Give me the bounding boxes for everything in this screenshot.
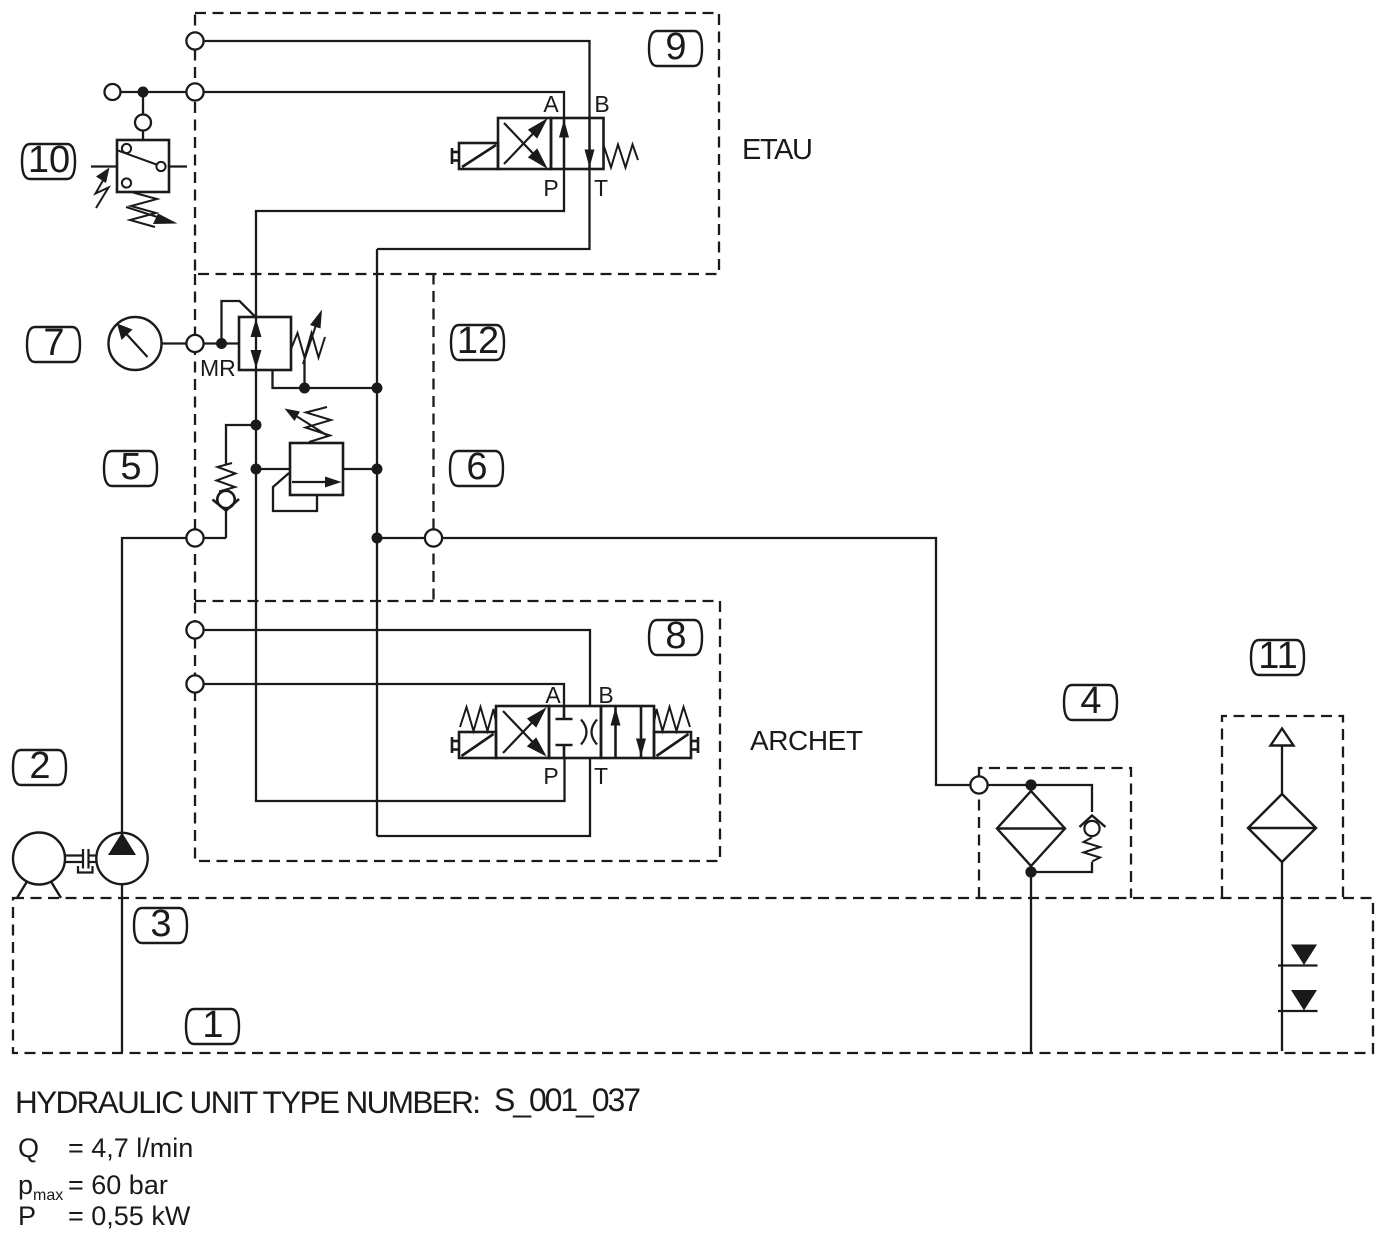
svg-text:P: P [543, 763, 558, 789]
valve 8 crossed arrow up-right [503, 721, 534, 754]
svg-text:MR: MR [200, 355, 236, 381]
junction dot at pressure switch tee [138, 87, 149, 98]
balloon tag 12 [451, 325, 504, 360]
pressure switch lightning symbol [96, 176, 109, 208]
wire return filter inlet [988, 784, 1032, 786]
balloon tag 5 [104, 451, 157, 486]
svg-text:2: 2 [29, 745, 50, 787]
svg-text:B: B [594, 91, 609, 117]
pressure switch contact circle top-left [122, 144, 131, 153]
port circle node A8 [186, 675, 203, 692]
pump 3 circle [96, 833, 147, 884]
port circle node P pump [186, 529, 203, 546]
fluid level mark lower triangle [1291, 990, 1317, 1011]
balloon tag 10 [22, 144, 75, 179]
svg-text:A: A [543, 91, 559, 117]
svg-text:B: B [598, 682, 613, 708]
svg-text:ARCHET: ARCHET [750, 725, 863, 756]
bypass check valve spring [1084, 838, 1101, 862]
pressure switch lightning arrowhead [96, 168, 110, 184]
pressure gauge needle [125, 333, 148, 358]
wire pressure switch left port [91, 165, 117, 167]
bypass check valve ball [1084, 821, 1099, 836]
svg-text:A: A [545, 682, 561, 708]
port circle node filter inlet [970, 776, 987, 793]
wire valve 8 B port line [204, 630, 591, 706]
junction dot relief inlet on P line [251, 464, 262, 475]
pump flow triangle [108, 833, 136, 856]
svg-text:Q: Q [18, 1133, 39, 1163]
wire pump riser top [122, 538, 187, 833]
svg-text:1: 1 [202, 1004, 223, 1046]
wire T to valve 8 T port [377, 758, 590, 836]
relief valve internal passage [292, 481, 327, 483]
breather 11 air triangle [1271, 729, 1294, 746]
valve 8 body left position box (crossed arrows) [496, 706, 549, 758]
wire pump riser bottom into tank [121, 884, 123, 1052]
wire drain of reducing valve [273, 370, 378, 388]
valve 9 solenoid [459, 143, 498, 169]
valve 8 left solenoid [459, 732, 496, 758]
valve 8 down arrowhead right box [636, 739, 646, 757]
coupling bars [82, 849, 84, 869]
pressure reducing valve passage line [255, 317, 257, 370]
junction dot reducing valve drain spring [299, 383, 310, 394]
manifold dashed edge connecting box 9 and box 8 [194, 274, 196, 601]
valve 9 down arrowhead on B-T passage [585, 150, 595, 168]
relief valve adjustment arrowhead [285, 409, 301, 422]
wire MR port circle to reducing valve inlet [204, 342, 240, 344]
wire check valve top branch to P line [226, 425, 256, 464]
enclosure box 8 (ARCHET valve subplate, dashed) [195, 601, 720, 861]
motor-pump shaft [65, 854, 83, 856]
dashed boundary line 12 [432, 274, 434, 602]
wire relief valve pilot hook [273, 473, 317, 511]
pressure gauge 7 [109, 317, 162, 370]
relief valve spring [306, 407, 332, 442]
wire breather stem [1281, 746, 1283, 795]
svg-text:5: 5 [120, 446, 141, 488]
svg-text:HYDRAULIC UNIT TYPE NUMBER:: HYDRAULIC UNIT TYPE NUMBER: [15, 1084, 481, 1120]
svg-text:ETAU: ETAU [742, 134, 813, 166]
valve 9 body right position box (parallel flow) [551, 118, 604, 169]
wire T shared return line [376, 249, 378, 836]
wire A/P passage inside valve 9 [563, 118, 565, 169]
valve 8 left spring [460, 707, 496, 731]
valve 8 right solenoid [654, 732, 691, 758]
balloon tag 1 [186, 1009, 239, 1044]
svg-text:9: 9 [665, 26, 686, 68]
pressure switch spring arrow shaft [126, 207, 162, 219]
electric motor 2 circle [13, 833, 65, 885]
wire B/T passage inside valve 9 [588, 118, 590, 169]
svg-text:3: 3 [150, 903, 171, 945]
fluid level mark upper bar [1278, 964, 1318, 966]
port circle node MR [186, 335, 203, 352]
port circle node A9 [186, 83, 203, 100]
junction dot filter top [1025, 779, 1036, 790]
wire gauge to MR port circle [162, 342, 187, 344]
valve 9 crossed arrow down-right [504, 123, 535, 156]
junction dot drain to T line [372, 383, 383, 394]
junction dot T line to return [372, 533, 383, 544]
pressure switch contact circle bottom-left [122, 178, 131, 187]
enclosure box 4 (return filter, dashed) [979, 768, 1131, 898]
valve 8 right connector pins [697, 737, 700, 753]
balloon tag 9 [649, 31, 702, 66]
balloon tag 3 [134, 908, 187, 943]
wire relief valve outlet [343, 468, 377, 470]
valve 9 body left position box (crossed arrows) [498, 118, 551, 169]
svg-text:6: 6 [466, 446, 487, 488]
open port circle left of pressure switch [105, 84, 121, 100]
balloon tag 7 [27, 327, 80, 362]
pressure switch contact circle right [156, 162, 165, 171]
relief valve passage arrowhead [325, 477, 342, 488]
svg-text:S_001_037: S_001_037 [494, 1082, 641, 1118]
pressure reducing valve adjustment arrow shaft [303, 319, 318, 364]
wire bypass branch of filter 4 [1031, 785, 1092, 812]
junction dot filter bottom [1025, 866, 1036, 877]
wire pressure switch stem upper [142, 92, 144, 114]
valve 8 body right position box (parallel flow) [601, 706, 654, 758]
pressure switch 10 body [117, 140, 169, 192]
breather 11 diamond [1248, 794, 1316, 862]
svg-text:7: 7 [43, 322, 64, 364]
enclosure box 11 (breather filter, dashed) [1222, 716, 1343, 897]
pressure reducing valve double arrowheads [251, 319, 262, 338]
wire pump port circle to check valve [204, 537, 227, 539]
port circle node B9 [186, 32, 203, 49]
valve 8 right box straight passages [614, 706, 617, 758]
enclosure box 9 (ETAU valve subplate, dashed) [195, 13, 719, 274]
pressure switch blade [118, 151, 157, 165]
wire pressure switch right port [169, 165, 187, 167]
pressure gauge needle arrowhead [117, 324, 133, 341]
pressure switch spring arrowhead [153, 214, 178, 225]
wire check valve bottom stub [225, 509, 227, 538]
valve 8 centre box blocked P stub [563, 745, 566, 758]
junction dot at MR gauge tee [216, 338, 227, 349]
relief valve adjustment arrow shaft [293, 414, 328, 436]
valve 9 solenoid connector pins [451, 148, 454, 164]
valve 8 body centre position box (closed centre) [549, 706, 601, 758]
wire filter 4 drain into tank [1030, 872, 1032, 1052]
svg-text:T: T [594, 175, 608, 201]
coupling bracket [78, 866, 93, 873]
svg-text:p: p [18, 1170, 33, 1200]
port circle node T return [425, 529, 442, 546]
svg-text:8: 8 [665, 615, 686, 657]
valve 8 centre box closed port arcs [581, 720, 587, 745]
svg-text:10: 10 [28, 139, 70, 181]
svg-text:P: P [18, 1201, 36, 1231]
check valve 5 spring [217, 463, 236, 492]
valve 8 centre box blocked A stub [563, 706, 566, 719]
valve 8 up arrowhead right box [611, 708, 621, 726]
junction dot relief outlet on T line [372, 464, 383, 475]
relief valve body [290, 443, 343, 495]
pressure switch port circle [135, 115, 151, 131]
pressure reducing valve spring [291, 333, 325, 358]
port circle node B8 [186, 621, 203, 638]
wire spring drain stub of reducing valve [303, 360, 305, 388]
return filter 4 element line [997, 827, 1065, 829]
balloon tag 2 [13, 750, 66, 785]
wire breather suction pipe into tank [1281, 862, 1283, 1051]
svg-text:12: 12 [457, 320, 499, 362]
svg-text:P: P [543, 175, 558, 201]
wire P line below reducing valve to valve 8 P port [256, 370, 565, 801]
wire return line from T junction to circle 433 [377, 537, 425, 539]
check valve 5 seat [213, 499, 240, 511]
balloon tag 8 [649, 620, 702, 655]
wire bypass check to filter outlet [1031, 862, 1092, 872]
svg-text:max: max [33, 1187, 63, 1204]
pressure reducing valve adjustment arrowhead [310, 310, 322, 329]
valve 9 crossed arrow up-right [504, 132, 535, 165]
motor left foot [17, 882, 27, 899]
return filter 4 diamond [997, 791, 1065, 866]
balloon tag 11 [1251, 640, 1304, 675]
svg-text:= 60 bar: = 60 bar [68, 1170, 168, 1200]
wire return line to return filter 4 [442, 538, 971, 785]
valve 8 right spring [654, 707, 690, 731]
svg-text:= 4,7 l/min: = 4,7 l/min [68, 1133, 193, 1163]
svg-text:4: 4 [1080, 680, 1101, 722]
tank T1 (reservoir, dashed) [13, 898, 1373, 1053]
junction dot check valve to P line [251, 420, 262, 431]
check valve 5 ball [217, 491, 234, 508]
wire pilot line of reducing valve [222, 301, 257, 344]
fluid level mark upper triangle [1291, 945, 1317, 966]
pressure reducing valve body [239, 317, 291, 370]
balloon tag 4 [1064, 685, 1117, 720]
wire valve 8 A port line [204, 684, 565, 706]
wire pressure switch stem lower [142, 131, 144, 141]
fluid level mark lower bar [1278, 1010, 1318, 1012]
svg-text:T: T [594, 763, 608, 789]
wire relief valve inlet [256, 468, 290, 470]
valve 9 up arrowhead on A-P passage [559, 120, 569, 138]
wire A of valve 9 (port circle to A, through valve to P route) [121, 92, 564, 317]
valve 9 return spring [604, 145, 639, 168]
wire B of valve 9 (B port to port circle, and down to T route) [195, 41, 590, 249]
pressure switch spring [130, 193, 157, 228]
breather 11 element line [1248, 827, 1316, 829]
balloon tag 6 [450, 451, 503, 486]
svg-text:= 0,55 kW: = 0,55 kW [68, 1201, 191, 1231]
bypass check valve seat [1080, 816, 1106, 828]
valve 8 left connector pins [451, 737, 454, 753]
motor right foot [51, 882, 61, 899]
valve 8 crossed arrow down-right [503, 711, 534, 744]
svg-text:11: 11 [1258, 635, 1297, 677]
